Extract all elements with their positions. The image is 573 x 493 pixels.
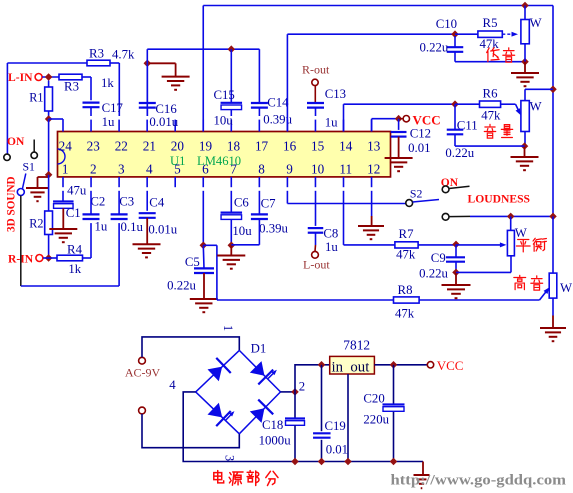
svg-text:17: 17: [255, 139, 269, 154]
svg-text:W: W: [515, 226, 528, 240]
svg-text:C2: C2: [90, 195, 105, 209]
svg-text:1u: 1u: [325, 116, 338, 130]
svg-text:C14: C14: [267, 96, 289, 110]
svg-text:4: 4: [169, 378, 176, 392]
svg-text:C19: C19: [325, 419, 346, 433]
svg-text:0.22u: 0.22u: [167, 279, 196, 293]
svg-text:C5: C5: [185, 255, 200, 269]
svg-text:7812: 7812: [343, 338, 370, 353]
svg-text:2: 2: [299, 380, 305, 394]
svg-text:in out: in out: [332, 360, 371, 376]
svg-text:22: 22: [115, 139, 128, 154]
svg-text:21: 21: [143, 139, 156, 154]
svg-text:LM4610: LM4610: [197, 154, 241, 168]
svg-text:47k: 47k: [480, 37, 500, 51]
svg-text:C18: C18: [262, 418, 283, 432]
svg-text:C6: C6: [234, 196, 250, 210]
svg-text:R6: R6: [483, 87, 499, 101]
svg-text:12: 12: [367, 162, 380, 177]
svg-text:C15: C15: [214, 88, 235, 102]
svg-text:U1: U1: [170, 154, 185, 168]
svg-text:10u: 10u: [214, 114, 234, 128]
svg-text:9: 9: [286, 162, 293, 177]
svg-text:C10: C10: [436, 17, 457, 31]
svg-text:AC-9V: AC-9V: [125, 366, 161, 380]
svg-text:4.7k: 4.7k: [112, 48, 135, 62]
svg-text:W: W: [530, 100, 543, 114]
svg-text:1: 1: [221, 325, 235, 331]
svg-text:C3: C3: [119, 195, 134, 209]
svg-text:C4: C4: [149, 196, 165, 210]
svg-text:0.22u: 0.22u: [445, 146, 474, 160]
svg-text:ON: ON: [7, 136, 25, 148]
svg-text:C12: C12: [410, 127, 431, 141]
svg-text:0.01u: 0.01u: [148, 223, 177, 237]
svg-text:D1: D1: [251, 342, 267, 356]
svg-text:1: 1: [62, 162, 69, 177]
svg-text:C9: C9: [431, 251, 446, 265]
svg-text:47k: 47k: [396, 248, 416, 262]
svg-text:1u: 1u: [95, 219, 108, 233]
svg-text:0.22u: 0.22u: [420, 41, 449, 55]
svg-text:R2: R2: [29, 217, 43, 231]
svg-text:16: 16: [283, 139, 297, 154]
svg-text:4: 4: [146, 162, 153, 177]
svg-text:1000u: 1000u: [259, 434, 292, 448]
svg-text:R1: R1: [29, 91, 43, 105]
svg-text:VCC: VCC: [437, 358, 464, 373]
svg-text:2: 2: [90, 162, 97, 177]
svg-text:3D SOUND: 3D SOUND: [6, 176, 18, 232]
svg-text:8: 8: [258, 162, 265, 177]
svg-text:13: 13: [367, 139, 381, 154]
svg-text:47u: 47u: [67, 184, 87, 198]
svg-text:0.39u: 0.39u: [259, 222, 288, 236]
svg-text:R3: R3: [89, 47, 104, 61]
svg-text:1k: 1k: [101, 76, 114, 90]
svg-text:R7: R7: [399, 227, 415, 241]
svg-text:10u: 10u: [232, 224, 252, 238]
svg-text:1u: 1u: [102, 115, 115, 129]
svg-text:L-IN: L-IN: [8, 71, 33, 84]
svg-text:VCC: VCC: [413, 113, 441, 128]
svg-text:0.01u: 0.01u: [149, 115, 178, 129]
svg-text:3: 3: [222, 455, 236, 461]
svg-text:19: 19: [199, 139, 213, 154]
svg-text:1k: 1k: [68, 262, 81, 276]
svg-text:S2: S2: [410, 187, 423, 201]
svg-text:24: 24: [59, 139, 73, 154]
svg-text:C17: C17: [102, 101, 124, 115]
svg-text:14: 14: [339, 139, 353, 154]
svg-text:C16: C16: [155, 102, 177, 116]
svg-text:S1: S1: [23, 160, 36, 174]
svg-text:0.01: 0.01: [326, 443, 348, 457]
svg-text:C8: C8: [323, 227, 338, 241]
svg-text:18: 18: [227, 139, 241, 154]
svg-text:47k: 47k: [395, 307, 415, 321]
svg-text:R-out: R-out: [302, 63, 330, 77]
svg-text:47k: 47k: [481, 109, 501, 123]
svg-text:10: 10: [311, 162, 325, 177]
svg-text:C20: C20: [363, 392, 384, 406]
svg-text:C1: C1: [66, 206, 81, 220]
svg-text:11: 11: [339, 162, 352, 177]
svg-text:15: 15: [311, 139, 325, 154]
svg-text:1u: 1u: [325, 240, 338, 254]
svg-text:R8: R8: [398, 283, 413, 297]
svg-text:LOUDNESS: LOUDNESS: [468, 193, 531, 206]
svg-text:http://www.go-gddq.com: http://www.go-gddq.com: [391, 473, 567, 489]
svg-text:20: 20: [171, 139, 185, 154]
svg-text:R4: R4: [67, 243, 83, 257]
svg-text:C7: C7: [261, 197, 277, 211]
svg-text:0.22u: 0.22u: [419, 267, 448, 281]
svg-text:W: W: [560, 281, 573, 295]
svg-text:3: 3: [118, 162, 125, 177]
svg-text:0.01: 0.01: [408, 141, 430, 155]
svg-text:W: W: [530, 16, 543, 30]
svg-text:220u: 220u: [363, 413, 389, 427]
svg-text:23: 23: [87, 139, 101, 154]
svg-text:R5: R5: [483, 16, 498, 30]
svg-text:R3: R3: [64, 80, 79, 94]
svg-text:L-out: L-out: [303, 258, 330, 272]
svg-text:0.1u: 0.1u: [121, 220, 144, 234]
svg-text:C13: C13: [325, 87, 346, 101]
